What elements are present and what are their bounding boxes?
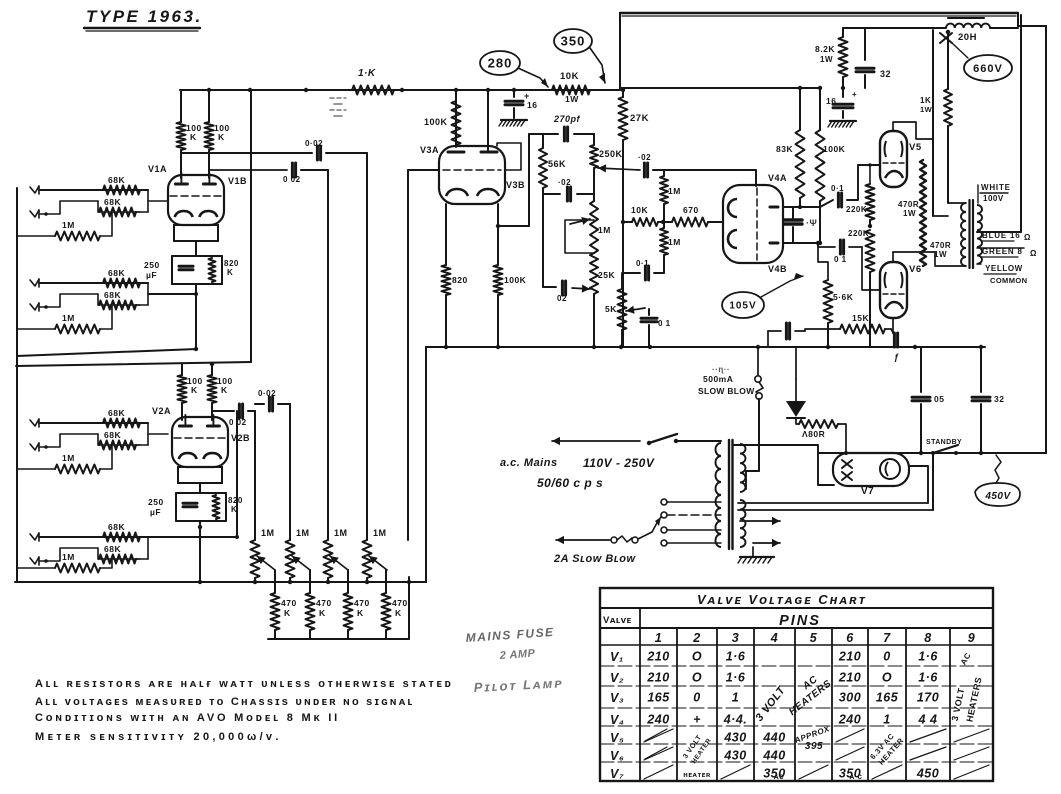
wire group4 riser xyxy=(236,411,238,537)
svg-text:2: 2 xyxy=(692,631,700,645)
svg-text:220K: 220K xyxy=(846,205,867,214)
svg-text:470: 470 xyxy=(281,598,297,608)
svg-text:450: 450 xyxy=(916,767,939,781)
svg-text:·02: ·02 xyxy=(558,178,571,187)
svg-text:K: K xyxy=(357,608,364,618)
svg-text:16: 16 xyxy=(826,96,836,106)
resistor 100K V3B xyxy=(494,265,503,295)
resistor 100K V1A xyxy=(177,122,186,150)
resistor 5K pot xyxy=(618,289,627,330)
svg-text:68K: 68K xyxy=(108,522,125,532)
svg-text:ᴀ c: ᴀ c xyxy=(850,772,863,781)
filter cap 16 top xyxy=(513,90,515,97)
tube V4 xyxy=(723,185,783,263)
svg-text:10K: 10K xyxy=(631,205,648,215)
svg-text:V5: V5 xyxy=(909,142,922,153)
svg-text:K: K xyxy=(221,385,228,395)
svg-text:56K: 56K xyxy=(548,159,566,169)
svg-text:1W: 1W xyxy=(820,55,833,64)
svg-text:670: 670 xyxy=(683,205,699,215)
svg-text:660V: 660V xyxy=(973,63,1003,75)
svg-text:0 1: 0 1 xyxy=(834,255,847,264)
svg-text:8.2K: 8.2K xyxy=(815,44,835,54)
wire bus corner down xyxy=(425,347,427,582)
svg-text:V₂: V₂ xyxy=(610,671,624,685)
svg-text:820: 820 xyxy=(228,496,243,505)
svg-text:1·K: 1·K xyxy=(358,68,376,79)
svg-text:+: + xyxy=(693,713,701,727)
resistor 10K mix xyxy=(623,221,632,223)
pot 1M 3 xyxy=(324,540,333,578)
resistor 27K xyxy=(619,97,628,140)
svg-text:250: 250 xyxy=(148,497,164,507)
svg-text:20H: 20H xyxy=(958,32,977,43)
svg-text:V7: V7 xyxy=(861,486,874,497)
capacitor 0.1 V4A out xyxy=(837,193,840,207)
svg-text:0: 0 xyxy=(883,650,890,664)
resistor 100K V4 xyxy=(819,88,821,130)
svg-text:16: 16 xyxy=(527,100,537,110)
svg-text:0: 0 xyxy=(693,691,700,705)
wire rect winding pair xyxy=(738,502,928,504)
svg-text:100K: 100K xyxy=(424,117,448,127)
resistor 56K xyxy=(542,134,544,148)
wire plate feed join xyxy=(798,86,802,90)
wire B+ vertical right xyxy=(947,32,949,89)
wire V4A plate xyxy=(783,206,800,208)
svg-text:68K: 68K xyxy=(108,408,125,418)
tube V7 xyxy=(833,453,909,486)
fuse 500mA xyxy=(757,347,759,375)
svg-text:8: 8 xyxy=(924,631,931,645)
transformer OT core xyxy=(968,200,970,268)
capacitor 0.02 b xyxy=(291,163,294,177)
wire fuse to HT winding xyxy=(758,399,760,471)
ground filter cap xyxy=(501,119,527,121)
resistor 1M tone xyxy=(663,170,665,176)
wire cathode res to bus xyxy=(445,295,447,347)
wire HT bus mid xyxy=(426,346,985,348)
svg-text:V₇: V₇ xyxy=(610,767,624,781)
svg-text:1M: 1M xyxy=(62,552,75,562)
svg-text:210: 210 xyxy=(838,650,861,664)
resistor 1M mix lower xyxy=(660,228,668,255)
wire V2 cathode xyxy=(199,483,201,493)
transformer OT secondary xyxy=(977,205,982,264)
wire diode top xyxy=(795,347,797,379)
wire V1 plate feeds xyxy=(180,90,182,122)
capacitor 0.1 V4B out xyxy=(839,240,842,254)
resistor 1K rail xyxy=(352,86,394,95)
wire V6 grid xyxy=(862,247,880,290)
capacitor 32b xyxy=(980,347,982,392)
svg-text:V₄: V₄ xyxy=(610,713,624,727)
wire HT top to V7 xyxy=(733,445,834,485)
svg-text:1W: 1W xyxy=(565,94,579,104)
svg-text:+: + xyxy=(852,90,857,99)
resistor 1K screen xyxy=(944,89,952,126)
input jacks group 4 xyxy=(30,533,39,540)
transformer mains primary xyxy=(716,443,722,547)
wire V3B plate loop xyxy=(497,143,521,170)
svg-text:68K: 68K xyxy=(104,430,121,440)
svg-text:27K: 27K xyxy=(630,113,649,124)
wire V5 plate xyxy=(893,122,933,139)
capacitor 0.1 tail xyxy=(785,323,788,339)
svg-text:110V - 250V: 110V - 250V xyxy=(583,456,655,470)
diode rectifier xyxy=(795,379,797,401)
capacitor V4 mid xyxy=(784,218,802,221)
svg-text:210: 210 xyxy=(646,671,669,685)
resistor 220K V5 grid xyxy=(866,184,875,220)
capacitor .02 out xyxy=(643,163,646,177)
svg-text:YELLOW: YELLOW xyxy=(985,264,1023,273)
resistor 470K 1 xyxy=(274,570,276,593)
wire V7 cathode out xyxy=(909,466,928,503)
ground mains xyxy=(752,547,754,556)
svg-text:K: K xyxy=(395,608,402,618)
svg-text:450V: 450V xyxy=(984,491,1011,502)
capacitor 0.02 c xyxy=(255,403,264,405)
wire V2B coupling xyxy=(213,410,234,412)
svg-text:Vᴀʟᴠᴇ Vᴏʟᴛᴀɢᴇ Cʜᴀʀᴛ: Vᴀʟᴠᴇ Vᴏʟᴛᴀɢᴇ Cʜᴀʀᴛ xyxy=(697,592,867,607)
svg-text:68K: 68K xyxy=(104,290,121,300)
pot wiper 5K xyxy=(626,308,645,311)
pot wiper 250K xyxy=(598,168,640,170)
svg-text:V₅: V₅ xyxy=(610,731,624,745)
svg-text:100K: 100K xyxy=(504,275,527,285)
svg-text:Λ80R: Λ80R xyxy=(802,429,825,439)
label 350 balloon xyxy=(554,29,592,53)
svg-text:Ω: Ω xyxy=(1024,233,1031,242)
input jacks group 1 xyxy=(30,186,39,193)
svg-text:1M: 1M xyxy=(62,220,75,230)
svg-text:V₆: V₆ xyxy=(610,749,624,763)
label 105V balloon xyxy=(722,292,764,318)
svg-text:1·6: 1·6 xyxy=(918,650,938,664)
svg-text:K: K xyxy=(227,268,233,277)
wire ch2 feed xyxy=(16,362,251,366)
transformer mains secondary HT xyxy=(740,444,745,492)
tube V2 xyxy=(172,417,228,467)
svg-text:68K: 68K xyxy=(104,197,121,207)
svg-text:V3A: V3A xyxy=(420,145,439,155)
svg-text:1W: 1W xyxy=(920,105,933,114)
wire heater arrows xyxy=(740,520,780,522)
screen resistor V5 xyxy=(920,160,926,266)
svg-text:1·6: 1·6 xyxy=(918,671,938,685)
svg-text:0 02: 0 02 xyxy=(283,175,301,184)
svg-text:280: 280 xyxy=(488,56,513,71)
svg-text:100K: 100K xyxy=(823,144,846,154)
transformer mains core xyxy=(728,440,730,549)
resistor 5.6K tail xyxy=(824,280,833,323)
svg-text:SLOW BLOW: SLOW BLOW xyxy=(698,386,755,396)
svg-text:V4A: V4A xyxy=(768,173,787,183)
svg-text:4·4.: 4·4. xyxy=(723,713,748,727)
resistor 10K 1W rail xyxy=(552,86,590,95)
svg-text:5K: 5K xyxy=(605,304,617,314)
svg-text:··ɳ··: ··ɳ·· xyxy=(712,365,730,374)
wire OT primary bottom xyxy=(893,252,966,266)
wire vertical x620 xyxy=(619,13,621,90)
svg-text:K: K xyxy=(190,132,197,142)
resistor 83K xyxy=(799,88,801,130)
svg-text:1M: 1M xyxy=(62,453,75,463)
svg-text:µF: µF xyxy=(150,507,161,517)
wire coupling to x328 xyxy=(301,169,328,171)
cathode network V1 250uF 820K xyxy=(172,255,222,257)
svg-text:170: 170 xyxy=(917,691,939,705)
svg-text:ᴀc: ᴀc xyxy=(774,772,784,781)
resistor 100K V3 xyxy=(452,101,461,145)
wire V3 plate feed A xyxy=(455,90,457,147)
wire V2 plate feeds xyxy=(181,364,183,375)
svg-text:3: 3 xyxy=(732,631,739,645)
svg-text:210: 210 xyxy=(646,650,669,664)
svg-text:820: 820 xyxy=(224,259,239,268)
wire B+ vertical left xyxy=(932,30,934,216)
input jacks group 3 xyxy=(30,419,39,426)
svg-text:K: K xyxy=(191,385,198,395)
svg-text:240: 240 xyxy=(646,713,669,727)
ground 16 main xyxy=(830,120,856,122)
tube V5 xyxy=(880,131,907,187)
tube V6 xyxy=(880,262,907,318)
svg-text:WHITE: WHITE xyxy=(981,183,1011,192)
svg-text:32: 32 xyxy=(880,69,891,79)
wire V2 cathode to bus xyxy=(199,521,201,582)
svg-text:µF: µF xyxy=(146,270,157,280)
wire V3 grid xyxy=(408,169,439,171)
pot 1M 4 xyxy=(363,540,372,578)
svg-text:Vᴀʟᴠᴇ: Vᴀʟᴠᴇ xyxy=(603,615,632,626)
svg-text:1M: 1M xyxy=(62,313,75,323)
wire V4 grid in xyxy=(666,170,756,186)
resistor 100K V2B xyxy=(208,375,217,403)
svg-text:7: 7 xyxy=(883,631,891,645)
resistor 25K xyxy=(590,253,598,294)
svg-text:1: 1 xyxy=(655,631,662,645)
resistor 220K lower xyxy=(866,230,875,272)
wire top supply xyxy=(843,27,946,29)
svg-text:50/60 c p s: 50/60 c p s xyxy=(537,476,603,490)
svg-text:820: 820 xyxy=(452,275,468,285)
wire V4B plate xyxy=(783,242,818,244)
wire OT primary top xyxy=(948,202,966,204)
svg-text:6: 6 xyxy=(846,631,854,645)
svg-text:470R: 470R xyxy=(898,200,919,209)
capacitor 16 main xyxy=(842,88,844,97)
svg-text:1M: 1M xyxy=(668,186,681,196)
svg-text:350: 350 xyxy=(561,34,586,49)
svg-text:·02: ·02 xyxy=(638,153,651,162)
wire coupling to x365 xyxy=(326,152,367,154)
svg-text:05: 05 xyxy=(934,394,944,404)
svg-text:270pf: 270pf xyxy=(553,114,581,124)
svg-text:1·6: 1·6 xyxy=(726,671,746,685)
svg-text:O: O xyxy=(692,650,702,664)
svg-text:V4B: V4B xyxy=(768,264,787,274)
wire tone out xyxy=(664,170,756,186)
wire V3 cathodes down xyxy=(445,204,447,265)
primary taps xyxy=(661,499,667,505)
wire pot bus xyxy=(15,581,426,583)
svg-text:100V: 100V xyxy=(983,194,1004,203)
tube V1 xyxy=(168,175,224,225)
svg-text:1M: 1M xyxy=(334,528,348,538)
svg-text:1·6: 1·6 xyxy=(726,650,746,664)
wire right outer vertical xyxy=(1045,26,1047,453)
svg-text:V₃: V₃ xyxy=(610,691,624,705)
svg-text:2A Sʟᴏᴡ Bʟᴏᴡ: 2A Sʟᴏᴡ Bʟᴏᴡ xyxy=(553,553,636,565)
wire V6 cathode cap xyxy=(893,333,896,347)
resistor 15K xyxy=(840,325,885,334)
pot 1M 1 xyxy=(251,540,260,578)
svg-text:4: 4 xyxy=(770,631,778,645)
svg-text:0·02: 0·02 xyxy=(305,139,323,148)
svg-text:0 1: 0 1 xyxy=(658,319,671,328)
svg-text:105V: 105V xyxy=(729,301,756,312)
capacitor 05 xyxy=(920,347,922,392)
resistor 470K 4 xyxy=(385,570,387,593)
resistor 8.2K 1W xyxy=(842,28,844,37)
svg-text:O: O xyxy=(882,671,892,685)
svg-text:68K: 68K xyxy=(108,268,125,278)
svg-text:83K: 83K xyxy=(776,144,793,154)
wire 470K bus xyxy=(268,638,409,640)
wire right top corner xyxy=(1017,13,1019,26)
svg-text:1: 1 xyxy=(732,691,739,705)
table columns xyxy=(639,628,641,781)
label 450V balloon xyxy=(975,483,1020,506)
svg-text:470: 470 xyxy=(316,598,332,608)
svg-text:430: 430 xyxy=(723,731,746,745)
svg-text:5: 5 xyxy=(810,631,818,645)
fuse 2A xyxy=(556,539,610,541)
svg-text:68K: 68K xyxy=(104,544,121,554)
svg-text:165: 165 xyxy=(876,691,899,705)
resistor 670 mix xyxy=(663,221,672,223)
wire HT rail xyxy=(180,89,620,91)
label 280 balloon xyxy=(480,51,520,75)
transformer OT primary xyxy=(961,203,966,266)
svg-text:Aʟʟ ʀᴇsɪsᴛᴏʀs ᴀʀᴇ ʜᴀʟғ ᴡᴀᴛ: Aʟʟ ʀᴇsɪsᴛᴏʀs ᴀʀᴇ ʜᴀʟғ ᴡᴀᴛᴛ ᴜɴʟᴇss ᴏᴛʜᴇʀ… xyxy=(35,678,453,690)
svg-text:240: 240 xyxy=(838,713,861,727)
wire vertical x408 xyxy=(407,170,409,540)
svg-text:02: 02 xyxy=(557,294,567,303)
wire 220K top xyxy=(869,165,871,184)
svg-text:1W: 1W xyxy=(903,209,916,218)
svg-text:1M: 1M xyxy=(296,528,310,538)
resistor 100K V2A xyxy=(178,375,187,403)
tube V3 xyxy=(439,146,505,204)
svg-text:Ω: Ω xyxy=(1030,249,1037,258)
wire feedback riser x529 xyxy=(528,134,530,226)
wire V1 cathode xyxy=(195,241,197,256)
svg-text:O: O xyxy=(692,671,702,685)
svg-text:10K: 10K xyxy=(560,71,579,82)
wire 25K to bus xyxy=(593,294,595,347)
svg-text:V1A: V1A xyxy=(148,164,167,174)
svg-text:15K: 15K xyxy=(852,313,869,323)
resistor 180R xyxy=(796,418,799,424)
svg-text:2 AMP: 2 AMP xyxy=(498,648,536,663)
input jacks group 2 xyxy=(30,279,39,286)
pot 1M 2 xyxy=(286,540,295,578)
svg-text:V2A: V2A xyxy=(152,406,171,416)
svg-text:300: 300 xyxy=(839,691,861,705)
wire V2 plates xyxy=(181,403,183,420)
table frame xyxy=(600,588,993,781)
svg-text:Mᴇᴛᴇʀ sᴇɴsɪᴛɪᴠɪᴛʏ 20,000ω/ᴠ.: Mᴇᴛᴇʀ sᴇɴsɪᴛɪᴠɪᴛʏ 20,000ω/ᴠ. xyxy=(35,731,282,743)
wire standby feed xyxy=(932,453,934,510)
svg-text:1M: 1M xyxy=(668,237,681,247)
svg-text:0·1: 0·1 xyxy=(636,259,649,268)
pot loop 1M xyxy=(565,220,594,253)
wire 220K bottom xyxy=(869,272,871,347)
svg-text:0·02: 0·02 xyxy=(258,389,276,398)
wire vertical x251 xyxy=(250,90,252,362)
svg-text:K: K xyxy=(218,132,225,142)
svg-text:68K: 68K xyxy=(108,175,125,185)
svg-text:V2B: V2B xyxy=(231,433,250,443)
wire 15K to cap xyxy=(891,329,893,333)
svg-text:1: 1 xyxy=(883,713,890,727)
wire V1A coupling y153 xyxy=(182,152,312,154)
wire 270pf to 250K xyxy=(574,133,594,135)
wire V1B coupling y170 xyxy=(210,169,287,171)
wire tone top xyxy=(529,133,558,135)
svg-text:ʜᴇᴀᴛᴇʀ: ʜᴇᴀᴛᴇʀ xyxy=(683,770,711,779)
wire V1 plates xyxy=(180,150,182,178)
svg-text:470R: 470R xyxy=(930,241,951,250)
svg-text:TYPE 1963.: TYPE 1963. xyxy=(86,7,203,26)
svg-text:165: 165 xyxy=(647,691,670,705)
svg-text:1M: 1M xyxy=(261,528,275,538)
svg-text:0·1: 0·1 xyxy=(831,184,844,193)
svg-text:ƒ: ƒ xyxy=(894,352,900,362)
svg-text:4 4: 4 4 xyxy=(918,713,938,727)
wire 220K join xyxy=(869,220,871,226)
svg-text:5·6K: 5·6K xyxy=(833,292,854,302)
svg-text:395: 395 xyxy=(805,741,823,752)
resistor 470K 2 xyxy=(309,570,311,593)
svg-text:V3B: V3B xyxy=(506,180,525,190)
svg-text:250K: 250K xyxy=(599,149,623,159)
svg-text:440: 440 xyxy=(762,749,785,763)
svg-text:Cᴏɴᴅɪᴛɪᴏɴs ᴡɪᴛʜ ᴀɴ AVO Mᴏᴅᴇ: Cᴏɴᴅɪᴛɪᴏɴs ᴡɪᴛʜ ᴀɴ AVO Mᴏᴅᴇʟ 8 Mᴋ II xyxy=(35,712,340,724)
svg-text:V6: V6 xyxy=(909,264,922,275)
svg-text:K: K xyxy=(284,608,291,618)
node rail dots xyxy=(207,88,211,92)
svg-text:V1B: V1B xyxy=(228,176,247,186)
table slashes xyxy=(644,729,673,742)
wire choke right xyxy=(990,27,1018,29)
svg-text:1K: 1K xyxy=(920,96,931,105)
svg-text:210: 210 xyxy=(838,671,861,685)
transformer mains secondary LT xyxy=(740,500,746,547)
svg-text:25K: 25K xyxy=(598,270,615,280)
wire OT tap yellow xyxy=(977,263,981,265)
wire V1 cathode to bus xyxy=(195,284,197,350)
resistor 250K pot xyxy=(590,145,598,168)
wire OT tap blue xyxy=(977,231,1021,233)
svg-text:K: K xyxy=(319,608,326,618)
svg-text:470: 470 xyxy=(392,598,408,608)
capacitor .02 tone xyxy=(543,188,560,194)
svg-text:1M: 1M xyxy=(598,225,611,235)
